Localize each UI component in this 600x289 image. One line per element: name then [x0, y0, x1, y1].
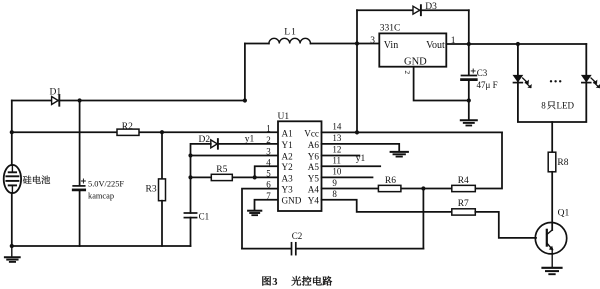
plus sign C3 [471, 69, 475, 73]
battery BT1 硅电池 (silicon cell) [4, 165, 21, 193]
svg-text:2: 2 [403, 70, 412, 74]
wire U1 pin2 to D2 [218, 143, 278, 145]
wire D3 top line [357, 9, 469, 11]
junction dot D2/pin3 [188, 153, 192, 157]
svg-text:R8: R8 [557, 158, 568, 168]
junction dot battery/R2 [10, 130, 14, 134]
svg-text:A6: A6 [308, 140, 320, 150]
wire regulator GND stem [414, 67, 469, 101]
svg-text:3: 3 [266, 147, 271, 157]
capacitor C2 [292, 243, 296, 255]
diode D1 [52, 95, 60, 105]
wire L1 row with inductor [245, 43, 379, 45]
wire row1 right: pin14 to R4 riser [322, 131, 503, 133]
op-amp U1 hex inverter box [278, 121, 322, 211]
wire battery positive vertical [11, 101, 13, 166]
wire U1 pin8 to R7 [322, 200, 452, 212]
wire U1 pin4 corner to pin5 [255, 166, 278, 177]
svg-text:A2: A2 [282, 151, 294, 161]
resistor R7 [452, 209, 476, 215]
wire C3 upper [468, 44, 470, 75]
svg-text:Q1: Q1 [558, 209, 570, 219]
junction dot GND/C3 [467, 98, 471, 102]
junction dot Vin node [355, 41, 359, 45]
svg-text:8: 8 [541, 101, 546, 111]
label 8只LED [541, 101, 574, 111]
ellipsis dots [550, 80, 562, 82]
junction dot D1 rail / C-kamcap [78, 98, 82, 102]
wire U1 pin11 stub [322, 165, 381, 167]
wire D2 to pin3 node [191, 144, 211, 156]
wire R3 top [161, 132, 163, 179]
svg-text:Y2: Y2 [282, 162, 294, 172]
wire U1 pin3 [191, 155, 279, 157]
wire C2 riser [422, 189, 424, 249]
svg-text:8: 8 [332, 189, 337, 199]
junction dot pin14/Vcc riser [355, 130, 359, 134]
ground symbol U1 pin7 [248, 211, 261, 216]
resistor R5 [211, 174, 232, 180]
svg-text:A1: A1 [282, 128, 294, 138]
caption 图3 光控电路 [262, 276, 332, 288]
svg-text:47μ F: 47μ F [477, 80, 498, 90]
svg-text:1: 1 [266, 124, 271, 134]
wire LED box bottom to R8 [551, 122, 553, 152]
wire C1 bottom [190, 218, 192, 246]
wire C2 line [242, 248, 423, 250]
svg-text:2: 2 [266, 135, 271, 145]
svg-text:L1: L1 [284, 27, 297, 37]
wire R7 to Q1 base [475, 212, 536, 238]
wire C3 lower [468, 81, 470, 120]
wire U1 pin13 [322, 144, 400, 151]
transistor Q1 [535, 223, 566, 268]
svg-text:R4: R4 [458, 176, 469, 186]
LED DS8 right [582, 75, 600, 87]
svg-text:5.0V/225F: 5.0V/225F [88, 180, 124, 189]
svg-text:C1: C1 [199, 211, 210, 221]
svg-text:12: 12 [332, 145, 341, 155]
wire ground rail bottom left [12, 245, 191, 247]
diode D2 [211, 139, 218, 149]
wire U1 pin10 stub [322, 176, 373, 178]
svg-text:A4: A4 [308, 185, 320, 195]
svg-text:A5: A5 [308, 162, 320, 172]
resistor R8 [548, 152, 556, 172]
wire row1 net: battery to R2 to U1 pin1 [12, 131, 278, 133]
svg-text:y1: y1 [245, 135, 255, 145]
LED DS1 left [514, 75, 532, 87]
junction dot L1/D1 rail [243, 98, 247, 102]
wire kamcap vertical lower [79, 191, 81, 246]
wire Vout rail / LED box top [446, 43, 586, 45]
svg-text:13: 13 [332, 133, 342, 143]
svg-text:Vout: Vout [426, 40, 445, 51]
wire node A vertical (pin3 to R5 to C1) [190, 156, 192, 214]
regulator U2 331C box [379, 33, 446, 66]
LED box 8只LED [518, 44, 586, 122]
resistor R3 [159, 179, 166, 201]
wire R8 to Q1 collector [551, 172, 553, 230]
svg-text:GND: GND [404, 56, 427, 67]
junction dot R2/R3 [160, 130, 164, 134]
svg-text:R5: R5 [216, 165, 227, 175]
svg-text:9: 9 [332, 178, 337, 188]
svg-text:R2: R2 [122, 122, 133, 132]
capacitor kamcap 5.0V/225F [73, 186, 85, 190]
svg-text:R6: R6 [385, 176, 396, 186]
junction dot battery/ground rail [10, 244, 14, 248]
junction dot Vout/C3 [467, 42, 471, 46]
ground symbol pin13 [391, 152, 408, 157]
inductor L1 [269, 38, 311, 43]
svg-text:R3: R3 [146, 184, 157, 194]
wire Vcc vertical (D3 to Vin to pin14) [356, 10, 358, 132]
ground symbol Q1 emitter [543, 268, 562, 274]
wire U1 pin5 through R5 [191, 176, 279, 178]
svg-text:y1: y1 [356, 154, 366, 164]
svg-text:Y1: Y1 [282, 140, 294, 150]
wire D3 right corner down [468, 10, 470, 44]
svg-text:3: 3 [370, 36, 375, 46]
svg-text:Y4: Y4 [308, 196, 320, 206]
junction dot Vout/LED box [516, 42, 520, 46]
svg-text:C3: C3 [477, 68, 488, 78]
diode D3 [413, 5, 421, 15]
wire R3 bottom [161, 201, 163, 246]
svg-text:LED: LED [557, 101, 575, 111]
capacitor C3 47uF [462, 76, 477, 80]
svg-text:D1: D1 [50, 87, 62, 97]
svg-text:Vin: Vin [384, 40, 398, 51]
svg-text:U1: U1 [278, 112, 290, 122]
svg-text:Y5: Y5 [308, 173, 320, 183]
svg-text:D3: D3 [425, 2, 437, 12]
svg-text:Y6: Y6 [308, 151, 320, 161]
capacitor C1 [184, 213, 196, 218]
wire U1 pin12 stub [322, 155, 360, 157]
plus sign kamcap [81, 179, 85, 183]
wire battery negative vertical [11, 193, 13, 246]
svg-text:7: 7 [266, 191, 271, 201]
svg-text:11: 11 [332, 155, 341, 165]
wire U1 pin7 to ground [255, 200, 279, 211]
svg-text:331C: 331C [380, 23, 401, 33]
svg-text:kamcap: kamcap [88, 192, 114, 201]
wire D1 top rail y=100.5 [12, 100, 245, 102]
junction dot pin4/pin5 [253, 175, 257, 179]
svg-text:5: 5 [266, 169, 271, 179]
svg-text:A3: A3 [282, 173, 294, 183]
ground symbol bottom left [5, 246, 20, 262]
wire L1 corner down to D1 rail [244, 44, 246, 101]
svg-text:GND: GND [282, 196, 302, 206]
svg-text:4: 4 [266, 157, 271, 167]
svg-text:C2: C2 [292, 231, 303, 241]
junction dot R5/node A [188, 175, 192, 179]
wire U1 pin9 row through R6 R4 [322, 132, 503, 188]
svg-text:6: 6 [266, 180, 271, 190]
resistor R2 [117, 129, 139, 135]
junction dot R6/R4/C2 [421, 186, 425, 190]
svg-text:Y3: Y3 [282, 185, 294, 195]
resistor R4 [452, 185, 476, 191]
wire U1 pin6 to C2 [242, 189, 278, 249]
svg-text:10: 10 [332, 167, 342, 177]
svg-text:3: 3 [272, 277, 277, 288]
resistor R6 [378, 185, 401, 191]
svg-text:R7: R7 [458, 199, 469, 209]
wire kamcap vertical upper [79, 101, 81, 186]
label 硅电池 [23, 175, 50, 183]
ground symbol C3 [461, 120, 477, 125]
svg-text:Vcc: Vcc [304, 128, 319, 138]
svg-text:14: 14 [332, 122, 342, 132]
